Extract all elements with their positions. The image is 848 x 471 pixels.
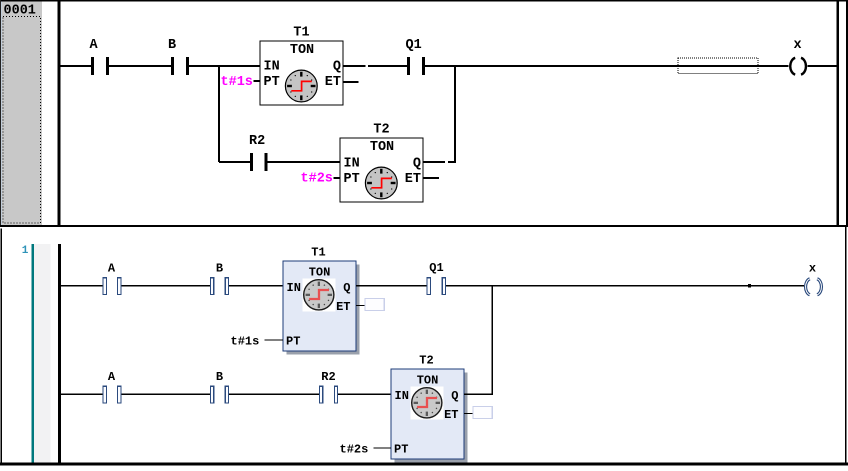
- svg-text:1: 1: [22, 245, 29, 257]
- pane frame left border: [0, 0, 1, 227]
- svg-text:IN: IN: [264, 60, 280, 75]
- svg-text:IN: IN: [287, 281, 301, 295]
- T1 bottom clock white plate: [303, 279, 336, 312]
- wire Q1 to coil x: [425, 65, 789, 67]
- svg-text:t#1s: t#1s: [221, 75, 253, 90]
- T1 bottom clock icon: [304, 280, 334, 310]
- svg-text:Q: Q: [413, 157, 421, 172]
- b-contact Q1: [427, 278, 446, 295]
- pane frame right border: [846, 0, 848, 227]
- svg-text:A: A: [108, 370, 116, 384]
- svg-text:T2: T2: [419, 353, 433, 367]
- svg-text:ET: ET: [405, 172, 421, 187]
- T2 clock icon: [365, 167, 397, 199]
- wire T2 Q to branch: [448, 161, 456, 163]
- T2 ET stub wire: [423, 177, 439, 179]
- b-wire t#2s to T2 PT: [374, 448, 392, 449]
- b-contact B rung2: [210, 386, 228, 403]
- T1 ET stub wire: [343, 81, 359, 83]
- svg-text:TON: TON: [290, 43, 314, 58]
- svg-text:ET: ET: [444, 408, 458, 422]
- svg-text:x: x: [809, 261, 816, 275]
- b-wire B to T1 r1: [229, 285, 283, 286]
- left power rail: [58, 2, 61, 226]
- svg-text:x: x: [793, 38, 801, 53]
- b-wire Q1 to coil: [445, 285, 804, 286]
- b-T1 ET value box: [365, 298, 384, 310]
- svg-text:PT: PT: [344, 172, 360, 187]
- b-contact A rung2: [103, 386, 121, 403]
- svg-text:t#1s: t#1s: [231, 334, 260, 348]
- bottom pane bottom border: [0, 463, 848, 466]
- branch wire down to T2 Q (bottom): [491, 285, 492, 394]
- TON block T2: [340, 123, 423, 203]
- wire R2 to block T2 IN: [267, 161, 340, 163]
- TON block T1 (bottom): [283, 245, 356, 351]
- wire B to block T1 IN: [189, 65, 260, 67]
- contact A: [91, 57, 94, 75]
- network margin band: [34, 244, 51, 463]
- svg-text:Q1: Q1: [406, 38, 422, 53]
- svg-text:PT: PT: [264, 75, 280, 90]
- placeholder dashed box: [678, 58, 758, 74]
- b-T1 ET stub wire: [356, 305, 365, 306]
- T2 bottom clock icon: [412, 388, 442, 418]
- svg-text:T2: T2: [373, 123, 389, 138]
- branch wire down to T2 Q: [454, 65, 456, 163]
- T2 bottom clock white plate: [411, 387, 444, 420]
- svg-text:A: A: [108, 261, 116, 275]
- svg-text:PT: PT: [286, 334, 300, 348]
- TON block T1: [260, 26, 343, 106]
- wire Q stub to contact Q1: [368, 65, 407, 67]
- b-T2 ET value box: [473, 406, 492, 418]
- svg-text:R2: R2: [321, 370, 335, 384]
- svg-text:TON: TON: [309, 266, 331, 280]
- svg-text:IN: IN: [344, 157, 360, 172]
- right power rail: [837, 2, 840, 226]
- svg-text:B: B: [216, 370, 223, 384]
- network number line: [31, 244, 34, 463]
- svg-text:t#2s: t#2s: [340, 442, 369, 456]
- svg-text:Q: Q: [333, 60, 341, 75]
- svg-text:R2: R2: [249, 134, 265, 149]
- b-wire R2 to T2: [338, 394, 391, 395]
- svg-text:Q: Q: [451, 389, 458, 403]
- contact Q1: [407, 57, 410, 75]
- svg-text:T1: T1: [311, 245, 325, 259]
- branch wire down after B: [218, 65, 220, 162]
- b-T2 ET stub wire: [464, 413, 473, 414]
- T2 Q output stub: [423, 161, 445, 163]
- b-contact A rung1: [103, 278, 121, 295]
- wire rail to contact A: [61, 65, 92, 67]
- T1 clock icon: [285, 70, 317, 102]
- svg-text:ET: ET: [336, 300, 350, 314]
- svg-text:ET: ET: [325, 75, 341, 90]
- rung number sidebar: [2, 2, 43, 226]
- svg-text:B: B: [216, 261, 223, 275]
- svg-text:TON: TON: [370, 140, 394, 155]
- TON block T2 (bottom) shadow: [395, 373, 468, 463]
- coil x: [790, 58, 806, 75]
- bottom pane right border: [845, 227, 847, 466]
- b-T2 Q stub to branch: [464, 394, 493, 395]
- bottom left power rail: [58, 244, 61, 463]
- svg-text:0001: 0001: [4, 4, 36, 19]
- b-contact B rung1: [210, 278, 228, 295]
- b-wire rail to contact A r2: [61, 394, 103, 395]
- TON block T2 (bottom): [391, 353, 464, 459]
- pane frame top border: [0, 0, 848, 2]
- svg-text:Q1: Q1: [429, 261, 443, 275]
- sidebar left highlight: [1, 2, 2, 226]
- svg-text:Q: Q: [343, 281, 350, 295]
- b-wire B to R2: [229, 394, 320, 395]
- wire coil to right rail: [808, 65, 837, 67]
- contact B: [171, 57, 174, 75]
- wire t#2s to PT pin: [334, 177, 341, 179]
- wire A to B: [109, 65, 171, 67]
- b-wire T1 Q to contact Q1: [356, 285, 427, 286]
- b-wire rail to contact A r1: [61, 285, 103, 286]
- bottom pane left border: [1, 229, 2, 466]
- b-contact R2: [320, 386, 338, 403]
- b-wire t#1s to T1 PT: [265, 340, 284, 341]
- contact R2: [250, 153, 253, 171]
- wire branch to contact R2: [219, 161, 250, 163]
- sidebar selection marquee: [3, 17, 41, 224]
- T1 Q output stub: [343, 65, 366, 67]
- svg-text:T1: T1: [293, 26, 309, 41]
- b-wire A to B r1: [121, 285, 210, 286]
- TON block T1 (bottom) shadow: [287, 265, 360, 355]
- junction dot on rung: [748, 284, 751, 287]
- svg-text:IN: IN: [395, 389, 409, 403]
- svg-text:PT: PT: [394, 442, 408, 456]
- svg-text:t#2s: t#2s: [301, 172, 333, 187]
- svg-text:B: B: [168, 38, 176, 53]
- svg-text:A: A: [90, 38, 99, 53]
- wire t#1s to PT pin: [254, 80, 261, 82]
- b-wire A to B r2: [121, 394, 210, 395]
- b-coil x: [806, 279, 822, 295]
- pane frame bottom border: [0, 225, 848, 227]
- svg-text:TON: TON: [417, 374, 439, 388]
